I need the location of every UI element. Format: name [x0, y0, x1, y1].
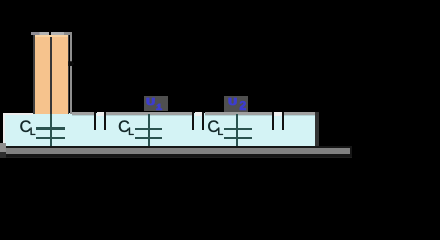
driver column dark left outline — [33, 35, 34, 115]
black notch on driver right side — [68, 61, 74, 66]
electrode strip underline shade D — [284, 115, 315, 116]
gap 3 left plate — [272, 112, 274, 130]
driver column dark right outline — [68, 35, 69, 115]
capacitor C_L 2 top plate — [135, 128, 163, 130]
electrode strip segment A — [72, 112, 95, 116]
channel slab (pale cyan wire region) — [3, 113, 318, 146]
substrate ground bar fill — [0, 148, 350, 155]
driver right grey cap — [51, 32, 71, 35]
gap 1 left plate — [94, 112, 96, 130]
capacitor C_L 3 top plate — [224, 128, 252, 130]
capacitor C_L 1 wire — [50, 114, 52, 146]
electrode strip underline shade C — [205, 115, 272, 116]
node U1 label text — [144, 95, 168, 112]
electrode strip underline shade B — [106, 115, 193, 116]
substrate left end grey block — [0, 143, 6, 153]
capacitor C_L 2 label — [119, 120, 134, 134]
capacitor C_L 2 wire — [148, 114, 150, 147]
gap 2 left plate — [192, 112, 194, 130]
substrate ground bar bottom shadow — [0, 157, 352, 158]
slab dark right edge — [315, 112, 319, 147]
electrode strip segment C — [205, 112, 272, 116]
electrode strip segment D — [284, 112, 315, 116]
capacitor C_L 3 bottom plate — [224, 137, 252, 139]
node U1 label box — [144, 96, 168, 111]
gap 3 white oxide fill — [274, 112, 282, 117]
gap 1 white oxide fill — [97, 112, 104, 117]
driver column dark middle line — [50, 35, 51, 115]
substrate ground bar bottom outline — [0, 154, 352, 156]
capacitor C_L 1 label — [20, 120, 35, 134]
substrate left end dark block — [0, 152, 6, 158]
capacitor C_L 3 label — [208, 120, 223, 134]
electrode strip underline shade A — [72, 115, 95, 116]
node U2 label box — [224, 96, 248, 112]
slab light left border — [3, 113, 5, 146]
driver right orange bar — [52, 35, 68, 115]
gap 2 white oxide fill — [195, 112, 203, 117]
capacitor C_L 1 bottom plate — [36, 137, 65, 139]
gap 2 right plate — [202, 112, 204, 130]
driver left orange bar — [35, 35, 50, 115]
gap 3 right plate — [282, 112, 284, 130]
electrode strip segment B — [106, 112, 193, 116]
driver orange top highlight — [35, 35, 68, 37]
capacitor C_L 2 bottom plate — [135, 137, 163, 139]
driver right vertical grey strip — [70, 32, 72, 114]
capacitor C_L 1 top plate — [36, 127, 65, 129]
capacitor C_L 3 wire — [236, 114, 238, 147]
driver left grey cap — [31, 32, 49, 35]
substrate ground bar right outline — [350, 146, 352, 157]
slab light top border (left of driver) — [3, 113, 33, 115]
gap 1 right plate — [104, 112, 106, 130]
substrate ground bar top outline — [0, 146, 352, 148]
node U2 label text — [226, 95, 250, 112]
